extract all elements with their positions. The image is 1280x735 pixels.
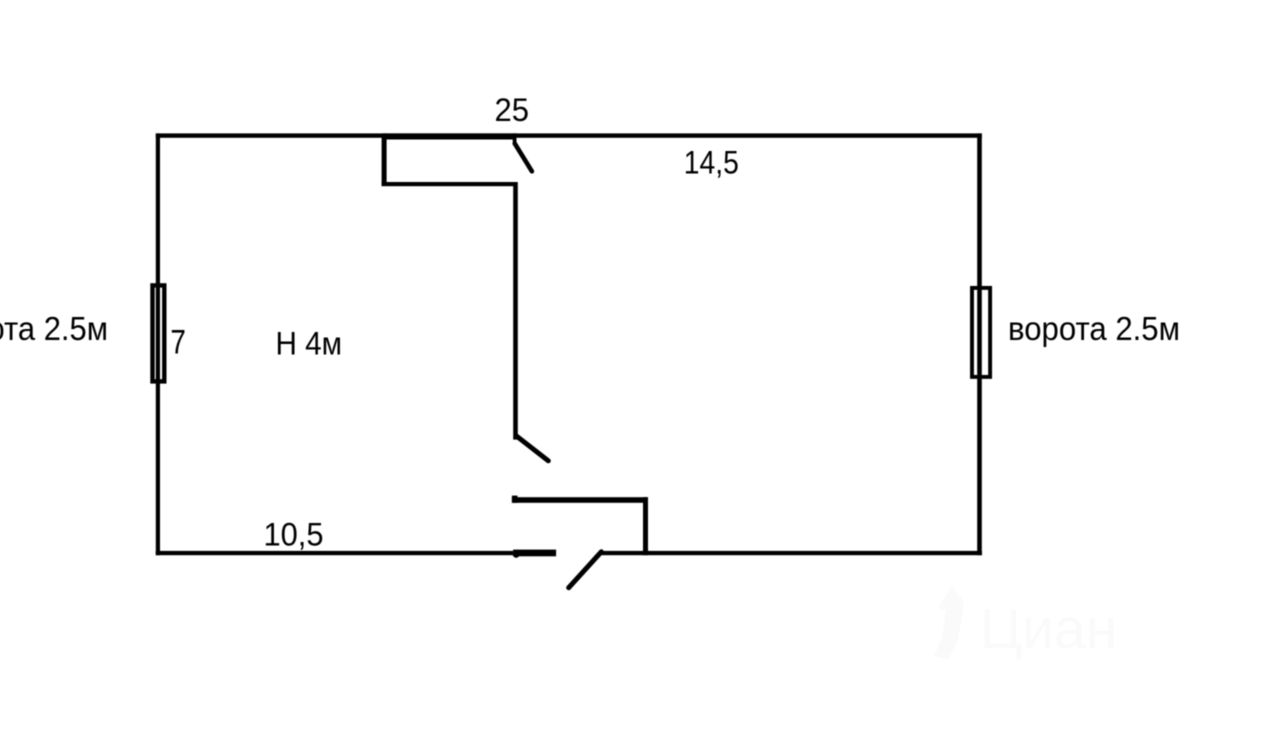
wall left outer bbox=[156, 133, 160, 555]
svg-text:ворота 2.5м: ворота 2.5м bbox=[0, 310, 108, 347]
svg-text:ворота 2.5м: ворота 2.5м bbox=[1008, 310, 1180, 347]
vestibule wall left nub bbox=[512, 496, 518, 503]
niche wall horizontal bottom bbox=[382, 182, 517, 186]
door jamb bottom thick segment bbox=[513, 550, 556, 557]
door jamb stub top wall bbox=[513, 133, 517, 144]
door leaf middle bbox=[516, 436, 548, 461]
vestibule wall vertical bbox=[643, 497, 648, 555]
vestibule wall horizontal bbox=[512, 497, 648, 503]
door leaf bottom bbox=[569, 552, 602, 588]
svg-text:Н 4м: Н 4м bbox=[276, 326, 343, 362]
gate symbol right bbox=[972, 288, 990, 377]
jamb end blob bbox=[513, 551, 519, 557]
wall top outer bbox=[156, 133, 982, 137]
watermark cian bbox=[934, 586, 1117, 661]
svg-text:Циан: Циан bbox=[980, 597, 1117, 661]
partition wall vertical bbox=[513, 182, 518, 440]
svg-text:7: 7 bbox=[170, 324, 186, 362]
wall right outer bbox=[977, 133, 982, 555]
gate symbol left bbox=[153, 285, 165, 381]
door leaf top bbox=[515, 144, 532, 172]
wall bottom right segment bbox=[601, 551, 982, 555]
svg-text:25: 25 bbox=[495, 92, 530, 128]
niche wall vertical left bbox=[382, 133, 387, 186]
svg-text:10,5: 10,5 bbox=[264, 517, 324, 553]
svg-text:14,5: 14,5 bbox=[684, 145, 739, 181]
wall bottom left segment bbox=[156, 551, 513, 555]
wall top thickened niche segment bbox=[384, 133, 517, 139]
